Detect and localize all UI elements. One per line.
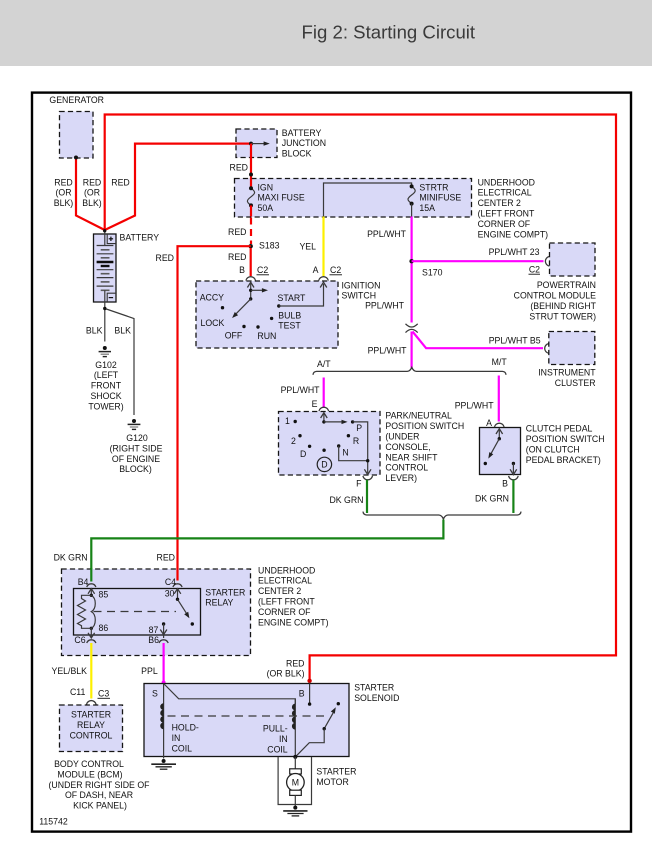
svg-text:115742: 115742	[39, 817, 68, 827]
connector C6	[87, 640, 96, 643]
svg-text:87: 87	[149, 625, 159, 635]
svg-text:(LEFT FRONT: (LEFT FRONT	[478, 209, 535, 219]
svg-text:OFF: OFF	[225, 331, 243, 341]
svg-text:(BEHIND RIGHT: (BEHIND RIGHT	[530, 301, 596, 311]
connector F	[363, 476, 373, 480]
wire PPL/WHT inline connector to instrument cluster	[413, 332, 544, 349]
svg-text:MINIFUSE: MINIFUSE	[419, 193, 461, 203]
svg-text:UNDERHOOD: UNDERHOOD	[258, 565, 315, 575]
svg-text:C2: C2	[257, 265, 268, 275]
svg-text:STARTER: STARTER	[316, 767, 356, 777]
svg-text:A/T: A/T	[317, 359, 331, 369]
svg-text:2: 2	[291, 436, 296, 446]
svg-text:ELECTRICAL: ELECTRICAL	[478, 188, 532, 198]
svg-text:BULB: BULB	[278, 311, 301, 321]
wire RED S183 to starter relay C4	[178, 246, 251, 580]
svg-text:OF DASH, NEAR: OF DASH, NEAR	[65, 790, 133, 800]
svg-text:1: 1	[285, 416, 290, 426]
solenoid S to pull-in coil wire	[164, 684, 296, 705]
underhood electrical center 2 outer box (relay)	[62, 569, 251, 656]
fuse box internal bus	[324, 183, 412, 217]
ignition switch internals	[250, 282, 252, 299]
svg-text:POSITION SWITCH: POSITION SWITCH	[385, 421, 464, 431]
ignition switch box	[196, 281, 338, 348]
solenoid switch	[337, 702, 340, 705]
wire RED inside battery junction block	[235, 143, 251, 145]
ignition position dots	[221, 306, 224, 309]
svg-text:MAXI FUSE: MAXI FUSE	[258, 193, 305, 203]
svg-text:(LEFT: (LEFT	[94, 370, 119, 380]
svg-text:85: 85	[99, 590, 109, 600]
svg-text:BLK): BLK)	[82, 198, 102, 208]
wire relay 87 to B6	[163, 635, 165, 638]
svg-text:LOCK: LOCK	[201, 318, 225, 328]
connector B4	[87, 584, 96, 587]
connector B clutch	[509, 476, 519, 480]
svg-text:OF ENGINE: OF ENGINE	[112, 454, 160, 464]
svg-text:PPL: PPL	[141, 666, 158, 676]
node S183	[249, 244, 253, 248]
svg-text:CENTER 2: CENTER 2	[478, 198, 521, 208]
svg-text:B6: B6	[148, 635, 159, 645]
wire PPL/WHT inline connector to brace	[411, 332, 413, 369]
svg-text:BLK: BLK	[86, 325, 103, 335]
svg-text:CLUTCH PEDAL: CLUTCH PEDAL	[526, 424, 593, 434]
brace A/T M/T split	[313, 367, 506, 374]
svg-text:CLUSTER: CLUSTER	[555, 378, 596, 388]
svg-text:30: 30	[165, 588, 175, 598]
starter solenoid box	[144, 684, 349, 757]
svg-text:F: F	[356, 479, 361, 489]
wire RED second from battery junction block branch	[105, 144, 251, 230]
svg-text:CONTROL MODULE: CONTROL MODULE	[514, 291, 596, 301]
svg-text:INSTRUMENT: INSTRUMENT	[538, 367, 596, 377]
svg-text:C2: C2	[330, 265, 341, 275]
wire DK GRN from F	[366, 480, 368, 513]
relay coil 85/86	[90, 589, 92, 596]
svg-text:B: B	[502, 478, 508, 488]
ground G102	[103, 346, 107, 350]
wire DK GRN inside UEC2 to B4	[90, 568, 92, 582]
svg-text:IGNITION: IGNITION	[342, 280, 381, 290]
solenoid to motor junction	[293, 755, 297, 759]
svg-text:STARTER: STARTER	[354, 683, 394, 693]
svg-text:(UNDER RIGHT SIDE OF: (UNDER RIGHT SIDE OF	[49, 780, 150, 790]
starter relay control box	[60, 705, 123, 752]
wire DK GRN from B clutch	[512, 480, 514, 513]
wire PPL/WHT S170 to PCM	[412, 260, 544, 262]
powertrain control module box	[550, 243, 596, 276]
svg-text:B: B	[239, 265, 245, 275]
svg-text:RELAY: RELAY	[205, 598, 233, 608]
wire BLK battery to grounds	[104, 302, 106, 342]
svg-text:STRUT TOWER): STRUT TOWER)	[529, 312, 596, 322]
svg-text:CORNER OF: CORNER OF	[258, 607, 311, 617]
svg-text:KICK PANEL): KICK PANEL)	[73, 801, 127, 811]
svg-text:CONSOLE,: CONSOLE,	[385, 442, 430, 452]
svg-text:PEDAL BRACKET): PEDAL BRACKET)	[526, 455, 601, 465]
battery junction block	[236, 129, 277, 158]
svg-text:TOWER): TOWER)	[88, 401, 123, 411]
svg-text:COIL: COIL	[172, 743, 193, 753]
svg-text:G120: G120	[126, 433, 148, 443]
ignition START to A wire	[279, 284, 324, 306]
svg-text:POWERTRAIN: POWERTRAIN	[537, 280, 596, 290]
svg-text:ENGINE COMPT): ENGINE COMPT)	[258, 618, 329, 628]
svg-text:ENGINE COMPT): ENGINE COMPT)	[478, 230, 549, 240]
svg-text:PPL/WHT B5: PPL/WHT B5	[489, 335, 541, 345]
battery + terminal	[107, 234, 116, 244]
svg-text:(ON CLUTCH: (ON CLUTCH	[526, 445, 580, 455]
svg-text:S183: S183	[259, 240, 280, 250]
svg-text:RED: RED	[156, 253, 174, 263]
svg-text:RELAY: RELAY	[77, 720, 105, 730]
svg-text:C2: C2	[529, 265, 540, 275]
diagram border frame	[32, 93, 631, 832]
svg-text:N: N	[342, 448, 348, 458]
svg-text:START: START	[278, 293, 307, 303]
wire RED top horizontal from generator area to right side	[105, 115, 616, 682]
park/neutral position switch box	[279, 412, 381, 476]
svg-text:IN: IN	[279, 734, 288, 744]
svg-text:A: A	[313, 265, 319, 275]
svg-text:A: A	[486, 418, 492, 428]
svg-text:(OR: (OR	[84, 188, 100, 198]
connector A C2	[319, 277, 329, 281]
solenoid ground (hold-in)	[162, 759, 166, 763]
svg-text:SWITCH: SWITCH	[342, 291, 377, 301]
wire PPL/WHT M/T drop to clutch A	[498, 376, 500, 422]
solenoid linkage dashed	[168, 715, 326, 717]
wire PPL/WHT fuse to S170 and down	[411, 217, 413, 323]
relay linkage dashed	[94, 611, 177, 613]
svg-text:STARTER: STARTER	[205, 587, 245, 597]
svg-text:CONTROL: CONTROL	[385, 463, 428, 473]
svg-text:E: E	[312, 399, 318, 409]
svg-text:FRONT: FRONT	[91, 381, 122, 391]
relay switch 30/87	[177, 589, 179, 600]
svg-text:HOLD-: HOLD-	[172, 723, 199, 733]
starter motor	[294, 757, 296, 769]
svg-text:(OR: (OR	[55, 188, 71, 198]
svg-text:YEL/BLK: YEL/BLK	[51, 666, 87, 676]
svg-text:UNDERHOOD: UNDERHOOD	[478, 177, 535, 187]
inline connector on PPL/WHT	[406, 324, 418, 327]
connector C11 C3	[87, 701, 97, 705]
svg-text:DK GRN: DK GRN	[54, 553, 88, 563]
svg-text:BLK): BLK)	[54, 198, 74, 208]
wire RED inside UEC2 to C4	[176, 568, 178, 581]
wire RED junction block to fuse box	[250, 144, 252, 179]
svg-text:YEL: YEL	[299, 241, 316, 251]
svg-text:BODY CONTROL: BODY CONTROL	[54, 759, 124, 769]
svg-text:PPL/WHT: PPL/WHT	[455, 400, 495, 410]
svg-text:TEST: TEST	[278, 321, 301, 331]
svg-text:Fig 2: Starting Circuit: Fig 2: Starting Circuit	[302, 22, 476, 43]
svg-text:COIL: COIL	[267, 745, 288, 755]
svg-text:50A: 50A	[258, 203, 274, 213]
svg-text:STRTR: STRTR	[419, 182, 448, 192]
svg-text:C11: C11	[70, 687, 86, 697]
svg-text:PPL/WHT: PPL/WHT	[365, 301, 405, 311]
fuse IGN MAXI FUSE 50A	[250, 179, 252, 189]
svg-text:DK GRN: DK GRN	[329, 495, 363, 505]
svg-text:CENTER 2: CENTER 2	[258, 586, 301, 596]
motor enclosure	[278, 757, 311, 805]
fuse STRTR MINIFUSE 15A	[408, 186, 415, 203]
svg-text:IGN: IGN	[258, 182, 274, 192]
svg-text:ELECTRICAL: ELECTRICAL	[258, 576, 312, 586]
svg-text:B: B	[299, 688, 305, 698]
svg-text:(RIGHT SIDE: (RIGHT SIDE	[110, 443, 163, 453]
svg-text:PPL/WHT: PPL/WHT	[367, 229, 407, 239]
solenoid pull-in coil	[294, 699, 296, 757]
svg-text:PULL-: PULL-	[263, 724, 288, 734]
ground G120	[132, 419, 136, 423]
connector B6	[159, 640, 168, 643]
svg-text:RED: RED	[230, 162, 248, 172]
svg-text:RUN: RUN	[257, 331, 276, 341]
svg-text:D: D	[321, 460, 327, 470]
svg-text:RED: RED	[83, 177, 101, 187]
svg-text:SHOCK: SHOCK	[90, 391, 121, 401]
park/neutral internals	[323, 413, 325, 422]
solenoid hold-in coil	[163, 684, 165, 759]
instrument cluster box	[549, 332, 595, 365]
wire PPL/WHT A/T drop to E	[323, 378, 325, 408]
svg-text:M: M	[292, 778, 299, 788]
svg-text:(OR BLK): (OR BLK)	[267, 669, 305, 679]
svg-text:C4: C4	[165, 577, 176, 587]
svg-text:P: P	[356, 423, 362, 433]
generator G	[60, 112, 94, 159]
svg-text:MODULE (BCM): MODULE (BCM)	[57, 769, 122, 779]
svg-text:RED: RED	[228, 252, 246, 262]
connector instrument cluster	[545, 344, 549, 354]
svg-text:BATTERY: BATTERY	[120, 232, 160, 242]
svg-text:(LEFT FRONT: (LEFT FRONT	[258, 597, 315, 607]
title bar	[0, 0, 652, 66]
svg-text:LEVER): LEVER)	[385, 473, 417, 483]
clutch switch internals	[498, 429, 500, 439]
svg-text:G102: G102	[95, 360, 117, 370]
svg-text:C6: C6	[74, 635, 85, 645]
svg-text:PPL/WHT: PPL/WHT	[281, 385, 321, 395]
svg-text:BLK: BLK	[114, 325, 131, 335]
clutch pedal position switch box	[480, 428, 521, 475]
svg-text:RED: RED	[286, 658, 304, 668]
svg-text:BLOCK: BLOCK	[282, 149, 312, 159]
svg-text:BATTERY: BATTERY	[282, 128, 322, 138]
svg-text:S170: S170	[422, 267, 443, 277]
wire YEL/BLK C6 to C11	[90, 643, 92, 699]
svg-text:C3: C3	[98, 689, 109, 699]
svg-text:PPL/WHT: PPL/WHT	[368, 345, 408, 355]
battery	[94, 234, 117, 302]
svg-text:MOTOR: MOTOR	[316, 777, 348, 787]
svg-text:RED: RED	[157, 553, 175, 563]
svg-text:GENERATOR: GENERATOR	[49, 95, 104, 105]
wire RED dashed fuse to S183	[250, 218, 252, 245]
wire PPL B6 to solenoid S	[163, 643, 165, 683]
connector A clutch	[495, 423, 505, 427]
svg-text:(UNDER: (UNDER	[385, 432, 419, 442]
starter relay inner box	[74, 589, 201, 636]
connector C2 PCM	[545, 257, 549, 267]
connector E	[319, 407, 329, 411]
svg-text:R: R	[353, 436, 359, 446]
svg-text:RED: RED	[228, 227, 246, 237]
battery - terminal	[107, 293, 116, 302]
connector B C2	[246, 277, 256, 281]
brace DK GRN join	[363, 512, 521, 519]
wire RED (OR BLK) from generator to battery	[76, 158, 105, 230]
svg-text:ACCY: ACCY	[200, 293, 224, 303]
svg-text:POSITION SWITCH: POSITION SWITCH	[526, 434, 605, 444]
svg-text:CONTROL: CONTROL	[70, 731, 113, 741]
svg-text:S: S	[152, 689, 158, 699]
svg-text:PARK/NEUTRAL: PARK/NEUTRAL	[385, 411, 452, 421]
relay coil output to C6	[90, 628, 92, 637]
svg-text:CORNER OF: CORNER OF	[478, 219, 530, 229]
svg-text:DK GRN: DK GRN	[475, 493, 509, 503]
svg-text:86: 86	[99, 623, 109, 633]
connector C4	[173, 584, 182, 587]
svg-text:D: D	[300, 449, 306, 459]
node S170	[409, 259, 413, 263]
svg-text:M/T: M/T	[492, 357, 508, 367]
svg-text:15A: 15A	[419, 203, 435, 213]
svg-text:SOLENOID: SOLENOID	[354, 693, 399, 703]
svg-text:IN: IN	[172, 733, 181, 743]
svg-text:JUNCTION: JUNCTION	[282, 138, 326, 148]
svg-text:PPL/WHT 23: PPL/WHT 23	[489, 247, 540, 257]
wire DK GRN brace to starter relay B4	[91, 520, 443, 582]
underhood electrical center fuse box	[235, 179, 472, 218]
wire YEL fuse box to ignition A	[322, 217, 324, 277]
svg-text:RED: RED	[54, 177, 72, 187]
solenoid B contact	[309, 684, 311, 705]
svg-text:RED: RED	[111, 177, 129, 187]
ignition lever to LOCK	[235, 299, 251, 315]
motor ground	[293, 806, 297, 810]
svg-text:STARTER: STARTER	[71, 710, 111, 720]
svg-text:BLOCK): BLOCK)	[119, 464, 152, 474]
svg-text:B4: B4	[78, 577, 89, 587]
svg-text:NEAR SHIFT: NEAR SHIFT	[385, 452, 438, 462]
wire RED S183 to ignition switch B	[250, 248, 252, 276]
